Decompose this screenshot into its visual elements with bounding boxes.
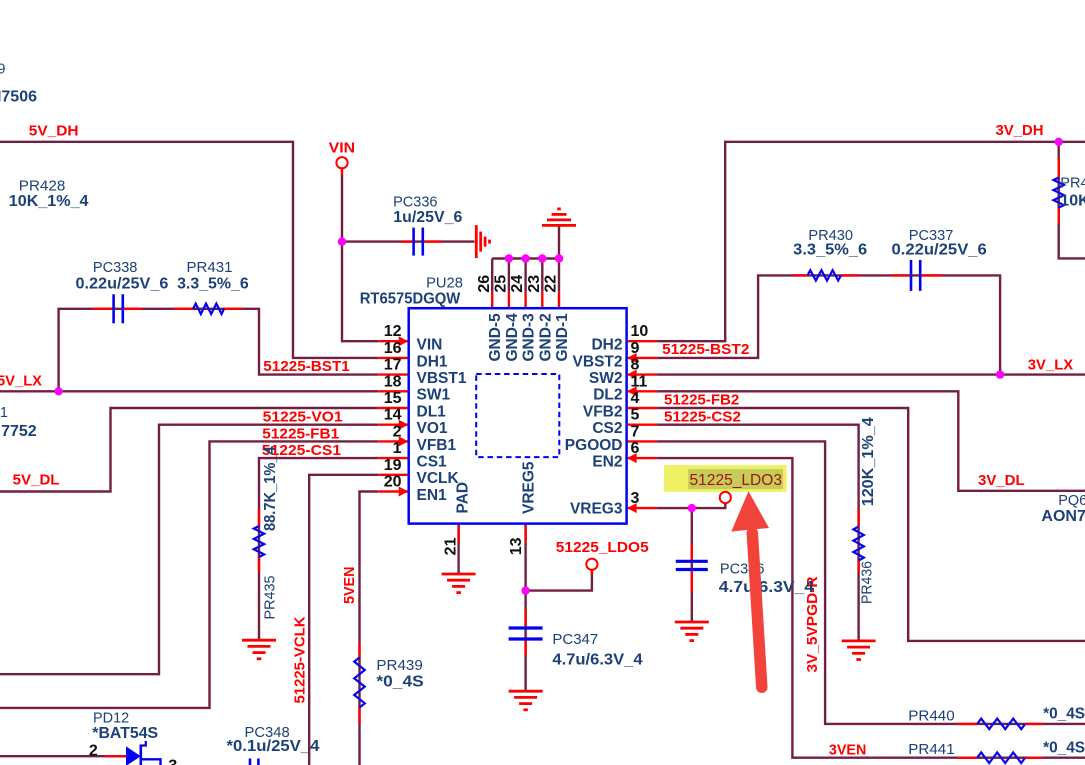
- svg-text:3.3_5%_6: 3.3_5%_6: [177, 276, 249, 293]
- svg-text:PR440: PR440: [908, 709, 954, 725]
- svg-text:51225-VCLK: 51225-VCLK: [292, 616, 309, 703]
- svg-text:4.7u/6.3V_4: 4.7u/6.3V_4: [719, 579, 814, 596]
- svg-text:PU28: PU28: [426, 276, 463, 292]
- svg-text:VREG5: VREG5: [521, 461, 538, 514]
- svg-text:EN1: EN1: [417, 487, 448, 504]
- svg-text:*BAT54S: *BAT54S: [92, 725, 158, 742]
- svg-text:23: 23: [526, 275, 543, 293]
- svg-text:DH1: DH1: [417, 353, 448, 370]
- svg-text:GND-5: GND-5: [487, 313, 504, 362]
- svg-text:12: 12: [384, 323, 402, 340]
- svg-text:51225_LDO3: 51225_LDO3: [690, 472, 783, 489]
- svg-text:24: 24: [509, 275, 526, 293]
- svg-text:RT6575DGQW: RT6575DGQW: [360, 291, 461, 308]
- svg-text:VCLK: VCLK: [417, 470, 460, 487]
- svg-text:VO1: VO1: [417, 420, 448, 437]
- svg-text:5V_LX: 5V_LX: [0, 373, 42, 390]
- svg-text:VFB1: VFB1: [417, 437, 457, 454]
- svg-text:7: 7: [631, 423, 640, 440]
- svg-text:20: 20: [384, 474, 402, 491]
- svg-text:4.7u/6.3V_4: 4.7u/6.3V_4: [552, 652, 642, 669]
- svg-text:3V_DH: 3V_DH: [996, 122, 1044, 139]
- svg-text:17: 17: [384, 357, 402, 374]
- svg-text:11: 11: [631, 373, 648, 390]
- svg-text:4: 4: [631, 390, 640, 407]
- svg-text:PR431: PR431: [187, 260, 233, 276]
- svg-text:*0_4S: *0_4S: [1043, 739, 1085, 756]
- svg-text:14: 14: [384, 407, 402, 424]
- svg-text:CS1: CS1: [417, 454, 448, 471]
- svg-text:88.7K_1%_4: 88.7K_1%_4: [262, 446, 279, 531]
- svg-text:AON7752: AON7752: [0, 423, 37, 440]
- svg-text:16: 16: [384, 340, 402, 357]
- svg-text:2: 2: [89, 742, 98, 759]
- svg-text:GND-4: GND-4: [504, 313, 521, 362]
- svg-text:1u/25V_6: 1u/25V_6: [393, 209, 462, 226]
- svg-text:51225-CS2: 51225-CS2: [664, 408, 741, 425]
- svg-text:*0.1u/25V_4: *0.1u/25V_4: [227, 738, 320, 755]
- svg-text:18: 18: [384, 373, 402, 390]
- svg-text:SW1: SW1: [417, 387, 451, 404]
- svg-text:3VEN: 3VEN: [829, 742, 866, 759]
- svg-text:PQ68: PQ68: [1058, 493, 1085, 509]
- svg-text:3V_LX: 3V_LX: [1028, 356, 1073, 373]
- svg-text:3: 3: [168, 758, 177, 765]
- svg-text:EN2: EN2: [592, 454, 622, 471]
- svg-text:3V_DL: 3V_DL: [978, 472, 1025, 489]
- svg-text:CS2: CS2: [592, 420, 622, 437]
- svg-text:SW2: SW2: [589, 370, 623, 387]
- svg-text:25: 25: [493, 275, 510, 293]
- svg-text:VBST2: VBST2: [573, 353, 623, 370]
- svg-text:PR439: PR439: [376, 658, 422, 674]
- svg-text:3.3_5%_6: 3.3_5%_6: [793, 242, 867, 259]
- svg-text:8: 8: [631, 357, 640, 374]
- svg-text:5: 5: [631, 407, 640, 424]
- svg-text:VFB2: VFB2: [583, 403, 623, 420]
- svg-text:51225-BST2: 51225-BST2: [662, 341, 749, 358]
- svg-text:PR429: PR429: [1060, 175, 1085, 191]
- svg-text:VBST1: VBST1: [417, 370, 467, 387]
- svg-text:AON7506: AON7506: [0, 89, 37, 106]
- svg-text:3: 3: [631, 490, 640, 507]
- svg-text:9: 9: [631, 340, 640, 357]
- svg-text:51225-FB1: 51225-FB1: [262, 425, 339, 442]
- svg-text:PR436: PR436: [859, 561, 875, 604]
- svg-text:5VEN: 5VEN: [341, 567, 358, 605]
- svg-text:10K_1%_4: 10K_1%_4: [1060, 193, 1085, 210]
- svg-text:22: 22: [543, 275, 560, 293]
- svg-text:19: 19: [384, 457, 402, 474]
- svg-text:6: 6: [631, 440, 640, 457]
- svg-text:PR435: PR435: [263, 576, 279, 620]
- svg-text:PQ59: PQ59: [0, 62, 5, 78]
- svg-text:PC347: PC347: [552, 632, 598, 648]
- svg-text:*0_4S: *0_4S: [1043, 706, 1085, 723]
- svg-text:5V_DH: 5V_DH: [29, 122, 79, 139]
- svg-text:1: 1: [393, 440, 402, 457]
- svg-text:51225-BST1: 51225-BST1: [263, 358, 350, 375]
- svg-text:GND-1: GND-1: [554, 313, 571, 362]
- svg-text:51225_LDO5: 51225_LDO5: [556, 539, 649, 556]
- svg-text:VREG3: VREG3: [570, 501, 623, 518]
- svg-text:51225-FB2: 51225-FB2: [664, 392, 739, 409]
- svg-text:15: 15: [384, 390, 402, 407]
- svg-text:0.22u/25V_6: 0.22u/25V_6: [76, 276, 169, 293]
- svg-text:13: 13: [508, 537, 525, 555]
- svg-text:10K_1%_4: 10K_1%_4: [9, 193, 89, 210]
- svg-text:DL1: DL1: [417, 403, 447, 420]
- svg-text:AON7752: AON7752: [1041, 508, 1085, 525]
- svg-text:10: 10: [631, 323, 649, 340]
- svg-text:26: 26: [476, 275, 493, 293]
- svg-text:PC336: PC336: [393, 194, 437, 210]
- svg-text:5V_DL: 5V_DL: [13, 472, 60, 489]
- svg-text:*0_4S: *0_4S: [376, 674, 424, 691]
- svg-text:PC338: PC338: [93, 260, 137, 276]
- svg-text:2: 2: [393, 423, 402, 440]
- svg-text:VIN: VIN: [329, 140, 356, 157]
- svg-text:0.22u/25V_6: 0.22u/25V_6: [892, 242, 987, 259]
- svg-text:120K_1%_4: 120K_1%_4: [860, 417, 877, 506]
- svg-text:PAD: PAD: [455, 482, 472, 514]
- svg-text:PR441: PR441: [908, 742, 954, 758]
- svg-text:PQ61: PQ61: [0, 405, 8, 421]
- svg-text:21: 21: [443, 537, 460, 555]
- svg-text:51225-VO1: 51225-VO1: [263, 409, 343, 426]
- svg-text:VIN: VIN: [417, 337, 443, 354]
- svg-text:DH2: DH2: [591, 337, 622, 354]
- svg-text:GND-3: GND-3: [521, 313, 538, 362]
- svg-text:DL2: DL2: [593, 387, 622, 404]
- svg-text:PGOOD: PGOOD: [565, 437, 623, 454]
- svg-text:GND-2: GND-2: [537, 313, 554, 361]
